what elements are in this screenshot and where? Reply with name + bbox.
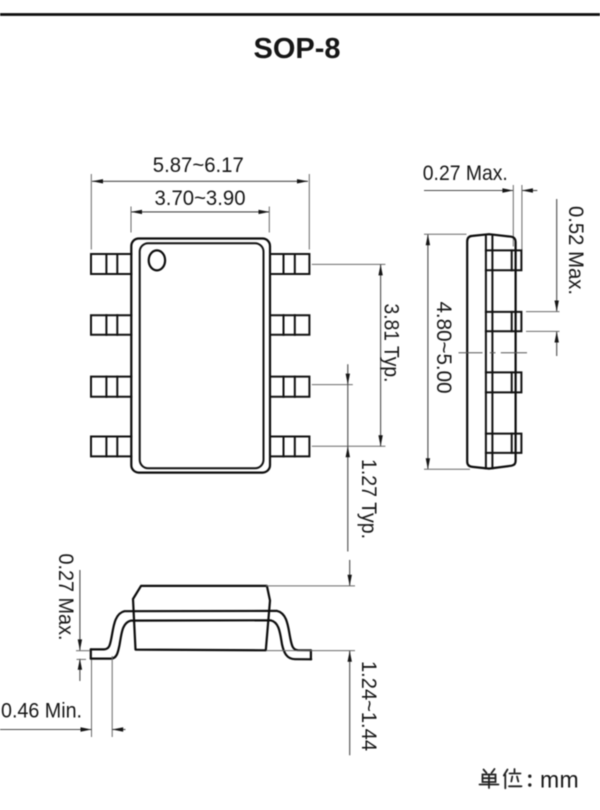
extension line foot plane (1.24~1.44) [266, 650, 355, 652]
side view mold parting line 1 [485, 235, 487, 469]
extension line body top (1.24~1.44) [266, 585, 355, 587]
top view package body outer outline [131, 239, 270, 473]
extension line left of 5.87 dim [90, 174, 92, 250]
side view pin 2 [486, 312, 522, 331]
side view package body outline [467, 234, 515, 468]
side view center line [459, 352, 528, 354]
extension line foot left (0.46) [91, 660, 93, 738]
extension line lead bottom (0.52) [526, 330, 560, 332]
side view pin 3 [486, 372, 522, 392]
footer fullwidth colon [528, 775, 531, 787]
dimension line 1.24~1.44 [349, 560, 351, 586]
extension line foot bottom (0.27 bottom view) [77, 658, 87, 660]
extension line foot top (0.27 bottom view) [76, 650, 90, 652]
svg-text:3.70~3.90: 3.70~3.90 [155, 186, 246, 210]
dimension line 0.52 Max. [556, 199, 558, 312]
side view mold parting line 2 [491, 235, 493, 468]
footer unit label 单 glyph [480, 769, 499, 788]
pin 4 (top view left) [91, 437, 131, 457]
extension line body top (4.80) [424, 233, 467, 235]
bottom view lead (gull wing) outer edge [91, 611, 311, 650]
dimension line 3.81 Typ. [380, 264, 382, 446]
svg-text:SOP-8: SOP-8 [253, 33, 340, 65]
pin 8 (top view right) [270, 254, 309, 274]
pin 7 (top view right) [270, 315, 309, 335]
bottom view package body outline [133, 586, 270, 650]
dimension line 0.27 Max. (bottom view) [79, 570, 81, 650]
extension line left of 3.70 dim [130, 207, 132, 233]
pin 5 (top view right) [270, 437, 309, 457]
extension line right of 3.70 dim [268, 207, 270, 233]
dimension line 1.27 Typ. [347, 364, 349, 551]
extension line right of 5.87 dim [308, 174, 310, 250]
pin 2 (top view left) [91, 315, 131, 335]
svg-text:mm: mm [540, 767, 579, 793]
side view pin 1 [486, 250, 522, 270]
bottom view lead right foot tip [310, 650, 312, 659]
extension line bend right (0.46) [111, 656, 113, 737]
svg-text:1.27 Typ.: 1.27 Typ. [357, 459, 381, 539]
svg-text:0.27 Max.: 0.27 Max. [423, 161, 508, 185]
extension line pin1 center right [312, 263, 386, 265]
dimension line 5.87~6.17 [92, 180, 308, 182]
pin 1 (top view left) [91, 254, 131, 274]
extension line pin3 center right [312, 384, 353, 386]
pin 3 (top view left) [91, 377, 131, 397]
header top rule [0, 13, 600, 16]
extension line lead tip (0.27) [521, 185, 523, 250]
extension line pin4 center right [312, 445, 386, 447]
dimension line 4.80~5.00 [427, 234, 429, 469]
svg-text:0.46 Min.: 0.46 Min. [1, 699, 82, 723]
bottom view lead left foot tip [90, 649, 92, 658]
pin 6 (top view right) [270, 377, 309, 397]
bottom view lead (gull wing) inner edge [91, 620, 311, 659]
dimension line 3.70~3.90 [131, 211, 270, 213]
top view package body inner outline [140, 243, 264, 468]
dimension line 0.46 Min. [0, 729, 92, 731]
svg-text:4.80~5.00: 4.80~5.00 [432, 302, 456, 394]
svg-text:3.81 Typ.: 3.81 Typ. [380, 304, 404, 383]
extension line lead top (0.52) [526, 311, 560, 313]
pin 1 indicator circle [149, 250, 165, 270]
svg-text:0.27 Max.: 0.27 Max. [54, 554, 78, 641]
svg-text:5.87~6.17: 5.87~6.17 [153, 153, 244, 177]
extension line body edge (0.27) [512, 185, 514, 247]
extension line body bottom (4.80) [424, 468, 470, 470]
dimension line 0.27 Max. [424, 190, 513, 192]
footer unit label 位 glyph [504, 769, 522, 788]
svg-text:0.52 Max.: 0.52 Max. [564, 206, 588, 295]
side view pin 4 [486, 434, 522, 453]
svg-text:1.24~1.44: 1.24~1.44 [357, 661, 381, 751]
